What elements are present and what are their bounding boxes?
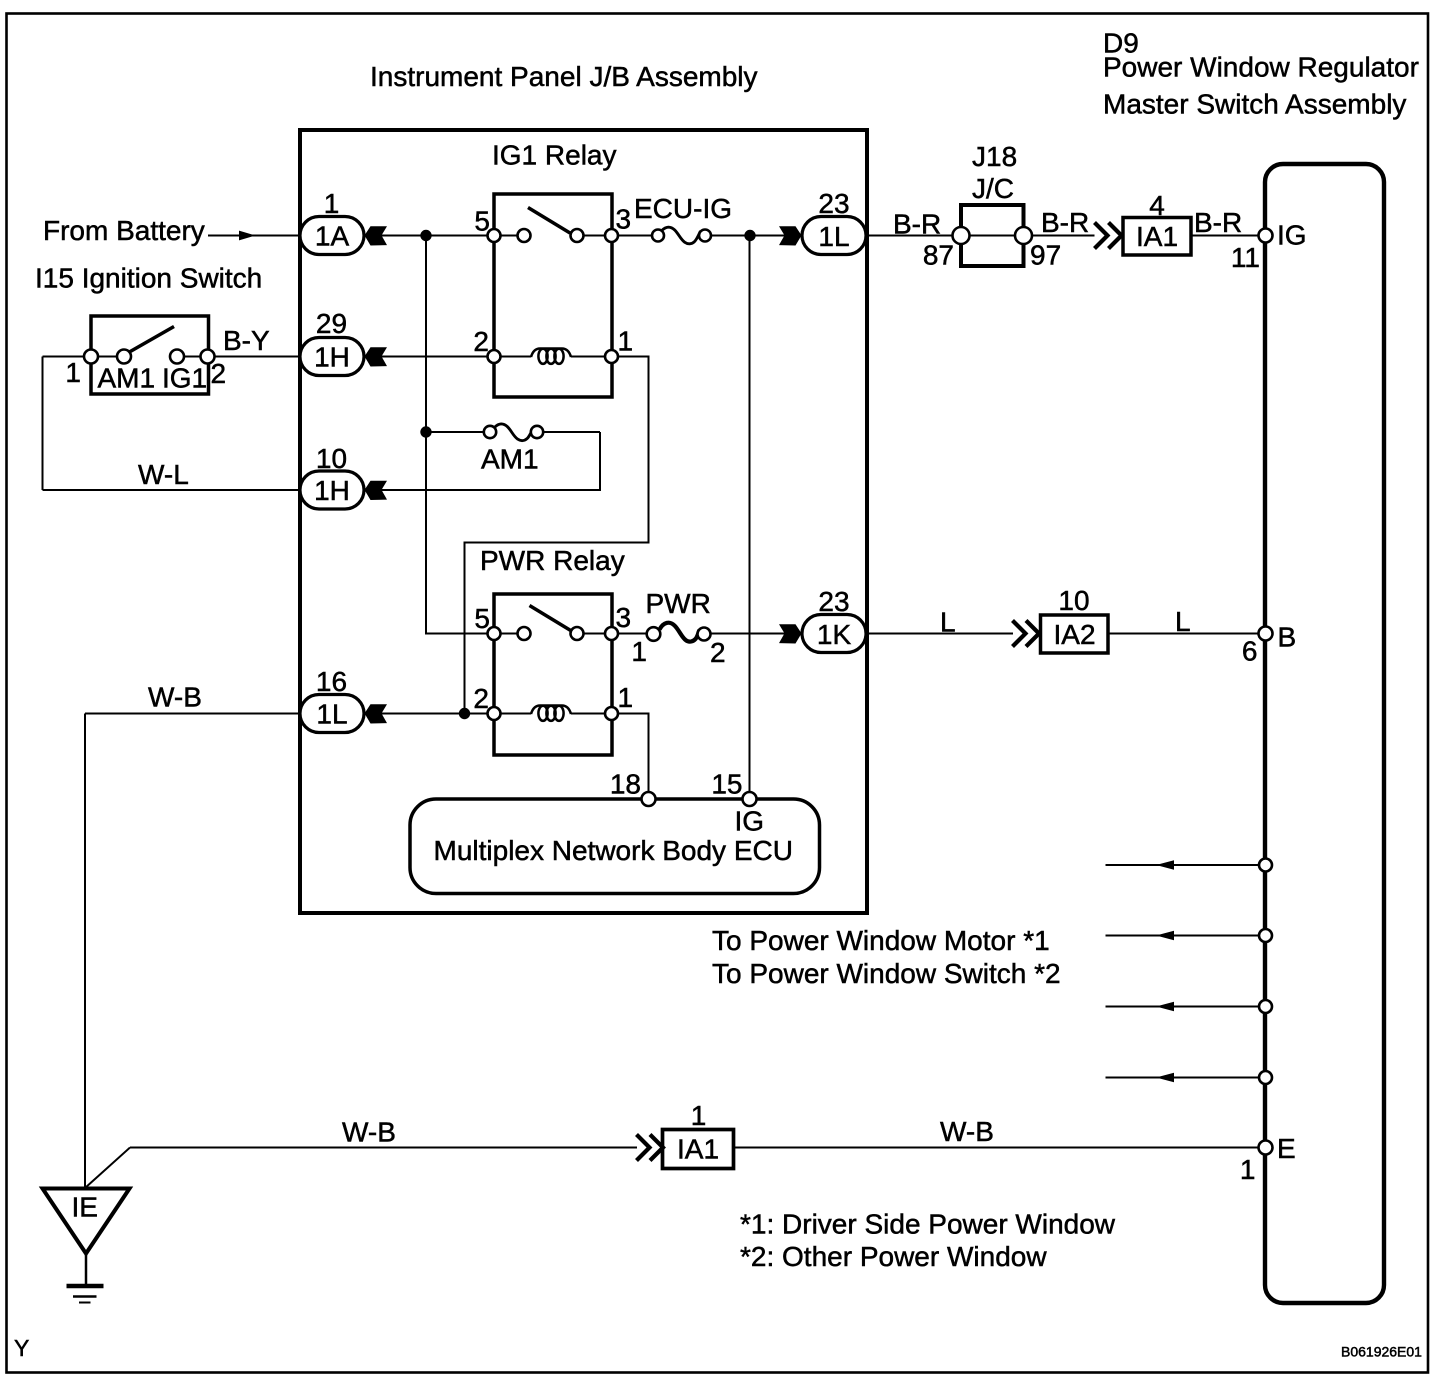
svg-text:To Power Window Motor *1: To Power Window Motor *1 [712,925,1050,956]
svg-text:*1: Driver Side Power Window: *1: Driver Side Power Window [740,1209,1116,1240]
svg-text:10: 10 [316,443,347,474]
svg-text:To Power Window Switch *2: To Power Window Switch *2 [712,958,1061,989]
svg-text:6: 6 [1242,636,1258,667]
svg-text:B-Y: B-Y [223,325,270,356]
svg-text:1: 1 [618,682,634,713]
svg-text:IA1: IA1 [677,1134,719,1165]
svg-text:11: 11 [1231,242,1260,273]
svg-text:B: B [1278,622,1297,653]
svg-text:*2: Other Power Window: *2: Other Power Window [740,1241,1047,1272]
svg-text:87: 87 [923,240,954,271]
svg-text:B-R: B-R [1194,207,1242,238]
svg-text:I15 Ignition Switch: I15 Ignition Switch [35,263,262,294]
svg-text:Master Switch Assembly: Master Switch Assembly [1103,89,1406,120]
svg-text:23: 23 [818,188,849,219]
svg-text:IG: IG [735,806,765,837]
svg-text:W-B: W-B [148,682,202,713]
svg-text:E: E [1277,1133,1296,1164]
svg-text:5: 5 [474,206,490,237]
svg-text:1: 1 [691,1100,707,1131]
svg-text:1: 1 [631,636,647,667]
svg-text:1: 1 [618,326,634,357]
svg-text:From Battery: From Battery [43,215,205,246]
svg-text:PWR Relay: PWR Relay [480,545,625,576]
svg-text:W-B: W-B [342,1117,396,1148]
svg-text:J/C: J/C [972,173,1014,204]
svg-text:B061926E01: B061926E01 [1341,1344,1422,1360]
svg-text:IE: IE [72,1192,98,1223]
svg-text:2: 2 [473,326,489,357]
svg-text:1: 1 [324,188,340,219]
svg-text:10: 10 [1058,585,1089,616]
svg-text:29: 29 [316,308,347,339]
svg-text:5: 5 [474,603,490,634]
svg-text:23: 23 [818,586,849,617]
svg-text:Multiplex Network Body ECU: Multiplex Network Body ECU [434,835,793,866]
svg-text:97: 97 [1030,240,1061,271]
svg-text:Instrument Panel J/B Assembly: Instrument Panel J/B Assembly [370,61,758,92]
svg-text:IG1: IG1 [162,363,207,394]
svg-text:3: 3 [616,204,632,235]
svg-text:ECU-IG: ECU-IG [634,193,732,224]
svg-text:AM1: AM1 [481,444,539,475]
svg-text:15: 15 [711,769,742,800]
svg-text:1A: 1A [315,221,350,252]
svg-text:4: 4 [1149,190,1165,221]
svg-text:IA2: IA2 [1053,619,1095,650]
svg-text:1L: 1L [818,221,849,252]
svg-text:Y: Y [14,1335,29,1361]
svg-text:Power Window Regulator: Power Window Regulator [1103,52,1419,83]
svg-text:1L: 1L [316,699,347,730]
svg-text:1H: 1H [314,342,350,373]
svg-text:PWR: PWR [646,588,711,619]
svg-text:1K: 1K [817,619,852,650]
svg-text:L: L [1175,606,1191,637]
svg-text:B-R: B-R [1041,207,1089,238]
svg-text:2: 2 [473,683,489,714]
svg-text:3: 3 [616,602,632,633]
svg-text:IG1 Relay: IG1 Relay [492,140,617,171]
svg-text:L: L [940,607,956,638]
svg-text:1H: 1H [314,475,350,506]
svg-text:2: 2 [710,637,726,668]
svg-text:16: 16 [316,666,347,697]
svg-text:IA1: IA1 [1136,221,1178,252]
svg-text:W-B: W-B [940,1116,994,1147]
svg-text:1: 1 [65,357,81,388]
svg-text:J18: J18 [972,141,1017,172]
svg-text:IG: IG [1277,220,1307,251]
svg-text:AM1: AM1 [98,363,156,394]
svg-text:1: 1 [1240,1154,1256,1185]
svg-text:W-L: W-L [138,459,189,490]
svg-text:2: 2 [211,358,227,389]
svg-text:B-R: B-R [893,209,941,240]
svg-text:18: 18 [610,769,641,800]
